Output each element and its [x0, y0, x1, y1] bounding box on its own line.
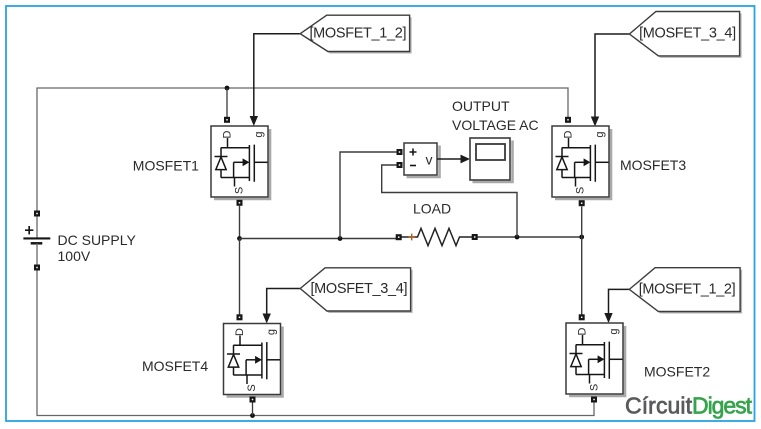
wire node A down to MOSFET4 drain — [239, 239, 241, 316]
svg-text:[MOSFET_3_4]: [MOSFET_3_4] — [639, 26, 736, 42]
svg-text:[MOSFET_1_2]: [MOSFET_1_2] — [310, 25, 407, 41]
wire node A to LOAD left — [240, 238, 397, 240]
svg-text:MOSFET2: MOSFET2 — [644, 364, 710, 380]
svg-text:Círcuit: Círcuit — [625, 393, 693, 419]
svg-text:Digest: Digest — [692, 393, 753, 419]
voltmeter - port — [397, 162, 403, 168]
svg-text:LOAD: LOAD — [413, 201, 451, 217]
svg-text:OUTPUT: OUTPUT — [452, 98, 510, 114]
MOSFET3 drain port — [565, 117, 571, 123]
DC supply - port — [34, 265, 40, 271]
node A junction — [237, 236, 242, 241]
MOSFET2 source port — [591, 397, 597, 403]
node junction voltmeter + tap — [338, 236, 343, 241]
DC supply + port — [34, 211, 40, 217]
node junction bottom bus to MOSFET4 source — [250, 413, 255, 418]
LOAD left port — [396, 234, 402, 240]
MOSFET4 source port — [250, 397, 256, 403]
node junction voltmeter - tap — [515, 235, 520, 240]
svg-text:100V: 100V — [58, 248, 91, 264]
svg-text:MOSFET3: MOSFET3 — [620, 157, 686, 173]
node junction top bus to MOSFET1 drain — [225, 86, 230, 91]
wire LOAD right to node B — [478, 236, 582, 238]
resistor LOAD R1 — [402, 228, 473, 245]
wire gate signal tag to MOSFET4 — [267, 289, 300, 315]
wire node B down to MOSFET2 drain — [581, 237, 583, 315]
wire top bus from DC supply + to MOSFET1/MOSFET3 drains — [37, 88, 568, 214]
wire MOSFET3 source to node B — [581, 207, 583, 238]
wire gate signal tag to MOSFET1 — [254, 34, 300, 117]
CircuitDigest logo — [625, 393, 753, 419]
wire gate signal tag to MOSFET3 — [595, 34, 629, 117]
wire MOSFET1 drain stub — [226, 88, 228, 117]
wire voltmeter output to scope — [437, 158, 461, 160]
voltmeter + port — [397, 149, 403, 155]
svg-text:[MOSFET_1_2]: [MOSFET_1_2] — [639, 282, 736, 298]
LOAD right port — [472, 234, 478, 240]
wire voltmeter + sense — [340, 152, 397, 239]
from tag MOSFET_3_4 top — [629, 12, 741, 58]
from tag MOSFET_1_2 bottom — [629, 268, 742, 314]
MOSFET2 drain port — [579, 314, 585, 320]
wire MOSFET1 source to mid node A — [239, 206, 241, 239]
svg-text:[MOSFET_3_4]: [MOSFET_3_4] — [311, 281, 408, 297]
MOSFET1 source port — [237, 200, 243, 206]
wire gate signal tag to MOSFET2 — [609, 289, 630, 314]
from tag MOSFET_1_2 top — [300, 15, 411, 53]
voltmeter U5 — [404, 143, 440, 177]
svg-text:v: v — [426, 152, 433, 168]
MOSFET4 drain port — [237, 314, 243, 320]
wire MOSFET4 source stub — [252, 402, 254, 416]
svg-text:VOLTAGE AC: VOLTAGE AC — [452, 117, 539, 133]
svg-text:DC SUPPLY: DC SUPPLY — [58, 232, 137, 248]
node B junction — [579, 235, 584, 240]
scope OUTPUT VOLTAGE AC — [470, 138, 513, 182]
MOSFET1 drain port — [224, 117, 230, 123]
svg-text:MOSFET4: MOSFET4 — [142, 358, 208, 374]
MOSFET3 source port — [579, 200, 585, 206]
DC supply battery V1 — [23, 215, 50, 266]
wire bottom bus from DC supply - to MOSFET4/MOSFET2 sources — [37, 266, 594, 416]
MOSFET2 block U2 — [566, 323, 625, 396]
svg-text:MOSFET1: MOSFET1 — [133, 158, 199, 174]
MOSFET1 block U1 — [211, 126, 270, 199]
MOSFET4 block U4 — [224, 324, 283, 397]
from tag MOSFET_3_4 bottom — [300, 268, 412, 313]
MOSFET3 block U3 — [552, 126, 611, 199]
wire voltmeter - sense — [382, 165, 517, 237]
